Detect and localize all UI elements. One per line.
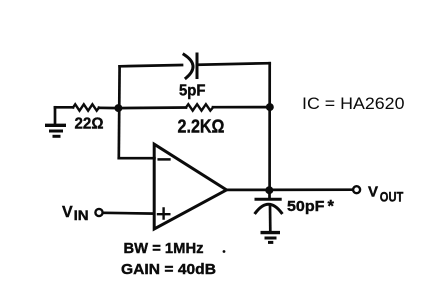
ground symbol right bars bbox=[261, 231, 281, 234]
node junction left bbox=[114, 104, 122, 112]
svg-text:BW = 1MHz: BW = 1MHz bbox=[124, 240, 204, 257]
wire right vertical feedback bbox=[268, 63, 271, 190]
svg-text:V: V bbox=[62, 204, 73, 221]
capacitor C2 lead top bbox=[268, 190, 271, 199]
wire 2.2K to right node bbox=[213, 106, 270, 109]
wire output bbox=[227, 188, 353, 191]
node junction output bbox=[265, 186, 273, 194]
svg-text:V: V bbox=[368, 183, 378, 200]
wire left vertical feedback bbox=[117, 66, 120, 158]
resistor R2 2.2Kohm bbox=[186, 104, 213, 110]
resistor R1 22ohm bbox=[73, 104, 99, 110]
capacitor C2 lead bottom bbox=[269, 206, 272, 231]
wire VIN to noninverting input bbox=[104, 211, 154, 215]
capacitor C1 5pF straight plate bbox=[196, 54, 199, 78]
op-amp minus symbol bbox=[159, 158, 170, 161]
wire top feedback horizontal bbox=[120, 63, 270, 66]
svg-text:5pF: 5pF bbox=[179, 82, 206, 99]
svg-text:22Ω: 22Ω bbox=[75, 116, 104, 133]
svg-text:OUT: OUT bbox=[380, 189, 404, 204]
wire inverting input stub bbox=[119, 157, 155, 160]
wire node to 2.2K bbox=[119, 106, 187, 109]
stray dot bbox=[223, 250, 226, 253]
op-amp U1 triangle bbox=[154, 144, 226, 229]
terminal VIN circle bbox=[95, 209, 102, 216]
capacitor C2 straight plate bbox=[256, 198, 280, 201]
ground symbol left bars bbox=[45, 124, 66, 127]
capacitor C1 5pF curved plate bbox=[184, 55, 193, 79]
wire 22ohm to ground bbox=[55, 106, 73, 109]
op-amp plus symbol bbox=[158, 208, 169, 218]
svg-text:*: * bbox=[328, 198, 335, 216]
capacitor C2 curved plate bbox=[256, 204, 282, 213]
ground lead left bbox=[54, 107, 57, 124]
svg-text:IN: IN bbox=[74, 208, 89, 223]
svg-text:50pF: 50pF bbox=[287, 198, 325, 215]
node junction right top bbox=[266, 103, 274, 111]
wire 22ohm to node bbox=[99, 106, 119, 109]
terminal VOUT circle bbox=[353, 186, 360, 193]
svg-text:IC = HA2620: IC = HA2620 bbox=[302, 94, 405, 113]
svg-text:GAIN = 40dB: GAIN = 40dB bbox=[121, 261, 216, 278]
svg-text:2.2KΩ: 2.2KΩ bbox=[178, 116, 225, 137]
